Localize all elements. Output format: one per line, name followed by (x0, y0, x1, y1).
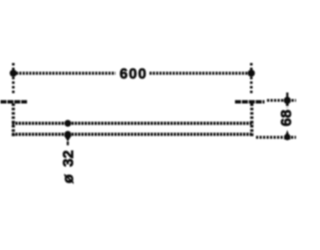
tick above 68 top dot (286, 93, 288, 98)
diameter dim dot on bar top (64, 120, 71, 127)
68 dim top dot (284, 97, 291, 104)
towel bar bottom line (12, 133, 253, 136)
left wall bracket cap (1, 100, 28, 103)
svg-text:32: 32 (60, 150, 77, 167)
left bracket post (12, 104, 15, 137)
dimension dot right (248, 70, 255, 77)
towel bar top line (12, 122, 253, 125)
68 dim bottom dot (284, 134, 290, 140)
extension line right of 600 dimension (250, 63, 253, 95)
diameter dim arrow tapering down (64, 136, 72, 142)
right wall bracket cap (235, 100, 265, 103)
svg-text:ø: ø (60, 173, 77, 183)
svg-text:600: 600 (120, 66, 148, 82)
68 dim bottom extension dashes (256, 136, 296, 139)
68 dim line upper segment (286, 104, 289, 109)
extension line left of 600 dimension (12, 63, 15, 95)
dimension line 600 left segment (16, 72, 116, 75)
leader tick below arrow (67, 142, 69, 146)
right bracket post (250, 104, 253, 137)
68 dim bottom arrowhead pointing up (284, 130, 291, 140)
68 dim top extension dashes (267, 99, 296, 102)
dimension dot left (10, 70, 17, 77)
diameter dim dot on bar bottom (64, 131, 71, 138)
dimension line 600 right segment (150, 72, 249, 75)
svg-text:68: 68 (278, 110, 295, 127)
